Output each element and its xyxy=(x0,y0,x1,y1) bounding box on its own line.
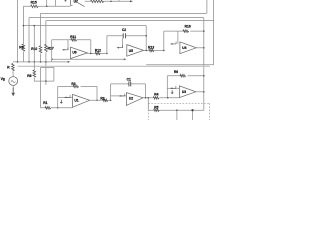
arrowhead at bus end xyxy=(68,61,71,63)
svg-text:Vg: Vg xyxy=(1,77,5,81)
wire R1 to U1 xyxy=(51,107,73,109)
plus mark U7 xyxy=(64,0,66,2)
wire U6 fb right leg x90.8 xyxy=(90,40,92,54)
source Vg circle xyxy=(9,77,18,86)
node junction xyxy=(203,47,205,49)
wire U3 output y91.8 xyxy=(196,91,204,93)
wire U6 output y53.4 xyxy=(87,52,107,54)
resistor on U7 output xyxy=(91,0,104,3)
svg-text:R12: R12 xyxy=(95,49,101,53)
wire U5 output y50.4 xyxy=(144,49,164,51)
node dot xyxy=(110,0,112,2)
wire U4 feedback row y31.1 xyxy=(164,30,204,32)
resistor R3 xyxy=(73,85,79,87)
resistor R12 xyxy=(95,52,100,54)
wire R1 column x40.3 xyxy=(41,81,45,108)
svg-text:C2: C2 xyxy=(122,28,126,32)
node junction xyxy=(203,91,205,93)
wire U1 feedback row y86.4 xyxy=(58,85,97,87)
wire stub x55.5 xyxy=(55,0,57,6)
wire drop x192.5 xyxy=(192,110,194,120)
ground arrow glyph U1 xyxy=(65,95,71,97)
node junction xyxy=(106,53,108,55)
svg-text:R5: R5 xyxy=(154,105,158,109)
node dot xyxy=(46,6,48,8)
node junction xyxy=(203,30,205,32)
op-amp U3 xyxy=(179,86,195,98)
node junction xyxy=(176,109,178,111)
op-amp U2 xyxy=(126,93,143,106)
wire U4 output y47.8 xyxy=(196,47,204,49)
wire R5 leg x148.3 xyxy=(147,98,149,110)
svg-text:R4: R4 xyxy=(154,92,158,96)
op-amp U7 (cropped at top) xyxy=(71,0,85,7)
svg-text:R6: R6 xyxy=(174,70,178,74)
op-amp U5 xyxy=(127,45,144,57)
wire U6 feedback row y39.8 xyxy=(52,39,91,41)
wire U1 output y100.3 xyxy=(90,99,111,101)
ground down-arrow U1 xyxy=(60,100,62,102)
wire U6 input tap x68 xyxy=(67,40,69,50)
svg-text:R8: R8 xyxy=(27,74,31,78)
wire U5 fb left leg x106.9 xyxy=(106,36,108,54)
resistor R15 xyxy=(31,5,38,8)
ground arrow glyph U3 xyxy=(170,86,176,88)
node junction xyxy=(167,97,169,99)
wire stub x46.7 xyxy=(46,0,48,6)
wire C1 right leg x145.5 xyxy=(145,84,147,98)
svg-text:U6: U6 xyxy=(72,50,76,54)
wire B2 right column x203.8 xyxy=(203,18,205,111)
resistor R9 xyxy=(22,44,25,51)
wire C2 right leg x146.2 xyxy=(145,26,147,51)
node junction xyxy=(45,80,47,82)
wire B3 right column x213.6 xyxy=(213,0,215,65)
resistor R10 xyxy=(39,46,42,53)
node junction xyxy=(163,50,165,52)
svg-text:C1: C1 xyxy=(127,77,131,81)
svg-text:R13: R13 xyxy=(148,45,154,49)
node junction xyxy=(145,35,147,37)
wire U4 input tap x177.9 xyxy=(177,31,179,44)
resistor R13 xyxy=(149,49,154,51)
node junction xyxy=(145,97,147,99)
wire U5 input tap x122.5 xyxy=(122,38,124,47)
resistor R1 xyxy=(45,107,51,109)
node junction (bold) xyxy=(191,109,193,111)
svg-text:R16: R16 xyxy=(185,24,191,28)
resistor R8 xyxy=(33,70,36,77)
wire drop x176.9 xyxy=(176,110,178,120)
ground arrow glyph U6 xyxy=(62,48,68,50)
wire R5 row y110.2 xyxy=(148,109,204,111)
wire U2 output y97.8 xyxy=(143,97,179,99)
svg-text:R11: R11 xyxy=(70,35,76,39)
resistor R2 xyxy=(103,99,108,101)
svg-text:U7: U7 xyxy=(74,0,78,4)
wire R6 left leg x167.3 xyxy=(166,76,168,98)
wire R8 column xyxy=(34,62,54,81)
node junction xyxy=(23,25,25,27)
wire U1 fb right leg x97 xyxy=(96,86,98,100)
wire R8 feed column x34.3 xyxy=(33,26,35,62)
light gray bus y66.3 xyxy=(18,65,210,67)
op-amp U6 xyxy=(71,47,88,58)
resistor R4 xyxy=(153,97,159,99)
bus B4 y25.6 xyxy=(23,25,146,27)
op-amp U4 xyxy=(180,42,196,54)
wire B1 left leg x40.5 / R10 column xyxy=(40,13,42,62)
svg-text:R9: R9 xyxy=(19,45,23,49)
bus B3 y20.1 xyxy=(46,20,214,22)
node junction xyxy=(110,100,112,102)
svg-text:R3: R3 xyxy=(71,82,75,86)
wire source to ground xyxy=(12,85,14,88)
wire B1 right stub x206.9 xyxy=(206,0,208,13)
wire R6 feedback row y75.7 xyxy=(167,75,204,77)
wire B2 left leg x29 xyxy=(28,18,30,62)
ground arrow glyph U5 xyxy=(117,45,123,47)
op-amp U1 xyxy=(73,94,90,107)
ground down-arrow U3 xyxy=(171,90,173,92)
wire R to source xyxy=(12,71,14,76)
svg-text:R1: R1 xyxy=(43,101,47,105)
resistor R17 xyxy=(45,44,48,51)
resistor R16 xyxy=(183,30,189,32)
svg-text:U3: U3 xyxy=(182,90,186,94)
svg-text:U2: U2 xyxy=(129,96,133,100)
ground arrow glyph U2 xyxy=(119,94,125,96)
bus B2 y17.6 xyxy=(29,17,204,19)
wire stub x119 xyxy=(118,0,120,1)
wire mid row y59.3 xyxy=(52,58,125,60)
svg-text:R2: R2 xyxy=(100,96,104,100)
wire input vertical x17.4 xyxy=(16,0,18,62)
wire U5 feedback row y35.8 xyxy=(107,35,146,37)
node junction xyxy=(96,100,98,102)
node junction xyxy=(34,25,36,27)
resistor R6 xyxy=(180,75,186,77)
capacitor C1 xyxy=(129,81,131,86)
node junction xyxy=(148,97,150,99)
svg-text:U5: U5 xyxy=(129,49,133,53)
arrow at wire end xyxy=(130,0,133,2)
capacitor C2 xyxy=(123,33,125,38)
wire R15 row y6.3 xyxy=(23,5,70,7)
wire U7 output row y1.3 xyxy=(85,0,133,2)
svg-text:R15: R15 xyxy=(31,0,37,4)
source resistor R xyxy=(12,64,15,71)
wire U2 input column x110.6 xyxy=(110,84,112,100)
resistor R11 xyxy=(71,39,77,41)
node junction xyxy=(203,75,205,77)
svg-text:R17: R17 xyxy=(48,46,54,50)
arrowhead at row end xyxy=(124,58,127,60)
wire U6 feedback left leg x51.7 xyxy=(51,40,53,62)
svg-text:U4: U4 xyxy=(182,46,186,50)
wire R9 column x23.4 xyxy=(22,6,24,62)
wire U1 input column x57.7 xyxy=(57,86,59,107)
wire C1 row y83.9 xyxy=(111,83,146,85)
node junction xyxy=(57,107,59,109)
svg-text:U1: U1 xyxy=(74,99,78,103)
node junction xyxy=(90,53,92,55)
ground arrow glyph U4 xyxy=(171,42,177,44)
box bottom-left xyxy=(41,68,54,82)
ground arrow xyxy=(12,88,14,93)
wire right row y64.8 xyxy=(146,64,213,66)
wire U2 input y95.9 xyxy=(111,95,127,97)
wire U4 fb left leg x163.8 xyxy=(163,31,165,50)
bus B1 y13.4 xyxy=(41,12,207,14)
dashed region box xyxy=(148,103,209,120)
node junction xyxy=(51,59,53,61)
junction dots on ground bus xyxy=(17,61,19,63)
wire U1 input y97.4 xyxy=(58,96,73,98)
wire U3 input y88.3 xyxy=(167,87,179,89)
bus bottom y61.9 xyxy=(13,61,69,63)
wire B3 left leg x45.9 / R17 column xyxy=(45,21,47,85)
resistor R5 xyxy=(154,109,160,111)
node junction xyxy=(145,50,147,52)
